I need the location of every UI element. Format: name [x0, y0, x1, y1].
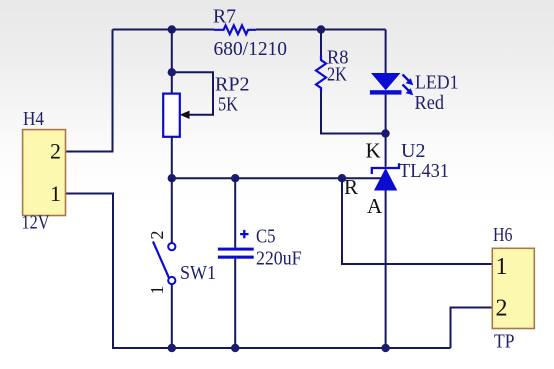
switch SW1 lever [153, 242, 169, 278]
svg-text:220uF: 220uF [256, 248, 302, 270]
resistor R8 [316, 56, 326, 92]
svg-text:C5: C5 [256, 226, 276, 248]
svg-text:680/1210: 680/1210 [214, 38, 288, 60]
svg-text:5K: 5K [218, 94, 238, 116]
junction dot RP2 wiper tap [168, 68, 176, 76]
svg-text:LED1: LED1 [415, 72, 459, 94]
op-amp U2 TL431 cathode bar [372, 163, 399, 174]
svg-text:1: 1 [147, 286, 167, 295]
wire: RP2 bottom lead [171, 137, 173, 178]
potentiometer RP2 body [163, 94, 180, 137]
svg-text:K: K [366, 139, 381, 163]
switch SW1 top contact [168, 243, 175, 250]
svg-text:R7: R7 [213, 6, 236, 28]
wire: SW1 bottom lead [171, 284, 173, 348]
svg-text:12V: 12V [22, 212, 50, 234]
LED light arrow 1 [403, 75, 410, 82]
connector H6 body [492, 248, 534, 328]
junction dot bottom rail at C5 [231, 344, 239, 352]
wire: bottom rail riser to H6 pin 2 [451, 308, 493, 349]
wire: R8 bottom lead to K node [321, 92, 386, 134]
wire: H4 pin2 stub to left riser up to top rail [66, 30, 113, 152]
svg-text:2: 2 [147, 231, 167, 240]
junction dot K node [381, 129, 389, 137]
LED light arrow 2 [403, 85, 410, 92]
wire: TL431 anode to bottom rail [385, 191, 387, 349]
svg-text:Red: Red [415, 92, 445, 114]
wire: RP2 wiper loop [172, 72, 213, 115]
capacitor C5 top plate [218, 248, 254, 251]
svg-text:H4: H4 [23, 108, 44, 130]
svg-text:A: A [367, 194, 383, 218]
svg-text:TP: TP [494, 331, 515, 353]
svg-text:H6: H6 [493, 224, 513, 246]
wire: bottom rail [112, 347, 451, 349]
wire: C5 top lead [234, 178, 236, 248]
LED LED1 cathode bar [370, 90, 402, 94]
junction dot middle rail at RP2/SW1 [168, 174, 176, 182]
wire: LED cathode to TL431 cathode [385, 95, 387, 167]
wire: top rail left segment [113, 29, 215, 31]
wire: LED top lead [385, 30, 387, 74]
wire: top rail right segment [256, 29, 386, 31]
op-amp U2 TL431 triangle [374, 168, 397, 191]
capacitor C5 bottom plate [218, 256, 254, 259]
wire: C5 bottom lead [234, 259, 236, 348]
connector H4 body [23, 130, 66, 216]
junction dot bottom rail at TL431 anode [381, 344, 389, 352]
wire: R node down and right to H6 pin 1 [342, 178, 492, 264]
junction dot middle rail at C5 [231, 174, 239, 182]
wire: H4 pin1 stub to left riser down to bottom rail [66, 194, 114, 349]
LED LED1 triangle [371, 73, 401, 90]
junction dot top rail at RP2 branch [168, 25, 176, 33]
svg-text:1: 1 [496, 254, 508, 280]
resistor R7 [214, 25, 256, 34]
wire: R8 top lead [320, 30, 322, 56]
wire: RP2 top lead [171, 30, 173, 94]
wire: middle rail [172, 177, 381, 179]
svg-text:1: 1 [50, 181, 61, 206]
svg-text:RP2: RP2 [215, 74, 250, 96]
svg-text:SW1: SW1 [180, 262, 216, 284]
svg-text:TL431: TL431 [399, 160, 449, 182]
junction dot top rail at R8 branch [317, 25, 325, 33]
switch SW1 bottom contact [168, 277, 175, 284]
capacitor C5 plus sign [240, 230, 248, 238]
junction dot bottom rail at SW1 [168, 344, 176, 352]
svg-text:2: 2 [496, 296, 508, 322]
svg-text:U2: U2 [401, 140, 425, 162]
junction dot middle rail at R node [338, 174, 346, 182]
svg-text:2: 2 [50, 139, 61, 164]
arrowhead of RP2 wiper [180, 111, 190, 119]
svg-text:2K: 2K [327, 64, 347, 86]
wire: SW1 top lead [171, 178, 173, 243]
